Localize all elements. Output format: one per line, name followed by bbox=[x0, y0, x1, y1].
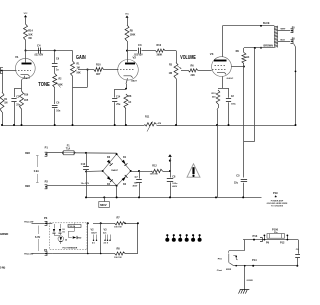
svg-text:400V: 400V bbox=[172, 185, 177, 188]
svg-text:5 M): 5 M) bbox=[0, 265, 5, 269]
svg-text:6L6: 6L6 bbox=[103, 233, 106, 235]
svg-text:BROWN: BROWN bbox=[264, 45, 274, 48]
svg-text:100K: 100K bbox=[130, 33, 136, 36]
svg-text:V1: V1 bbox=[15, 55, 19, 59]
svg-text:P1: P1 bbox=[45, 146, 49, 150]
svg-text:WHT: WHT bbox=[281, 29, 287, 31]
svg-text:12AX7: 12AX7 bbox=[91, 232, 97, 235]
svg-text:SPKR: SPKR bbox=[226, 269, 232, 271]
svg-text:0.9A: 0.9A bbox=[34, 170, 39, 173]
svg-text:1M: 1M bbox=[4, 103, 7, 105]
svg-text:C14: C14 bbox=[116, 95, 121, 98]
svg-text:22K: 22K bbox=[191, 74, 196, 77]
svg-text:TONE: TONE bbox=[38, 82, 50, 88]
svg-text:P100: P100 bbox=[272, 227, 279, 231]
svg-text:1N4007: 1N4007 bbox=[111, 169, 119, 172]
svg-text:22u: 22u bbox=[234, 183, 239, 185]
svg-text:V3: V3 bbox=[210, 52, 214, 56]
svg-text:R11: R11 bbox=[145, 116, 150, 119]
svg-text:P12: P12 bbox=[280, 242, 285, 245]
svg-text:R10: R10 bbox=[157, 44, 162, 47]
svg-text:10n: 10n bbox=[56, 111, 61, 113]
svg-text:6L6GC: 6L6GC bbox=[227, 78, 234, 80]
svg-text:R14: R14 bbox=[28, 30, 33, 33]
svg-text:P13: P13 bbox=[253, 234, 258, 238]
svg-text:1K: 1K bbox=[128, 102, 131, 104]
svg-text:100 1W: 100 1W bbox=[114, 227, 122, 229]
svg-text:P14: P14 bbox=[252, 258, 257, 262]
svg-text:C/out: C/out bbox=[217, 269, 222, 272]
svg-text:12AX7: 12AX7 bbox=[131, 80, 138, 83]
svg-text:BLK: BLK bbox=[281, 39, 286, 41]
svg-text:400V: 400V bbox=[132, 185, 137, 188]
svg-text:50K: 50K bbox=[77, 73, 82, 75]
svg-text:10K 5W: 10K 5W bbox=[150, 174, 159, 176]
svg-text:C3: C3 bbox=[138, 43, 142, 47]
svg-text:T1A: T1A bbox=[66, 147, 71, 150]
svg-text:GRND: GRND bbox=[247, 280, 254, 282]
svg-text:24: 24 bbox=[65, 239, 67, 242]
svg-text:RED: RED bbox=[25, 153, 30, 155]
svg-text:P19: P19 bbox=[273, 191, 278, 195]
svg-text:RED: RED bbox=[25, 186, 30, 188]
svg-text:TO CHASSIS: TO CHASSIS bbox=[271, 204, 284, 207]
svg-text:100 1W: 100 1W bbox=[114, 257, 122, 259]
svg-text:R12: R12 bbox=[152, 164, 157, 167]
svg-text:.022 63V: .022 63V bbox=[134, 55, 144, 57]
svg-text:.022 63V: .022 63V bbox=[34, 55, 44, 57]
svg-text:C4: C4 bbox=[37, 44, 41, 48]
svg-text:P2: P2 bbox=[45, 179, 49, 183]
svg-text:6.3V: 6.3V bbox=[35, 236, 40, 239]
svg-text:100u: 100u bbox=[172, 183, 178, 185]
svg-text:BLUE: BLUE bbox=[263, 22, 270, 25]
svg-text:F100 2A: F100 2A bbox=[69, 225, 76, 228]
svg-text:VOLUME: VOLUME bbox=[180, 55, 196, 61]
svg-text:10K: 10K bbox=[28, 33, 33, 36]
svg-text:1K5: 1K5 bbox=[24, 100, 29, 102]
svg-text:100u: 100u bbox=[231, 104, 237, 106]
svg-text:P3: P3 bbox=[44, 216, 48, 220]
svg-text:R10: R10 bbox=[96, 64, 101, 67]
svg-text:GAIN: GAIN bbox=[76, 55, 86, 61]
svg-text:PILOT BREAKER: PILOT BREAKER bbox=[63, 246, 78, 249]
svg-text:25u: 25u bbox=[116, 104, 121, 106]
svg-text:1M: 1M bbox=[169, 72, 172, 75]
svg-text:C10: C10 bbox=[81, 163, 86, 166]
svg-text:R16: R16 bbox=[24, 95, 29, 97]
svg-text:D5: D5 bbox=[63, 232, 65, 234]
svg-text:10n 1KV: 10n 1KV bbox=[81, 183, 90, 185]
svg-text:390K: 390K bbox=[157, 54, 163, 57]
svg-text:MOV: MOV bbox=[100, 203, 107, 207]
svg-text:1K: 1K bbox=[246, 56, 249, 59]
svg-text:GRND: GRND bbox=[0, 232, 8, 236]
svg-text:4K7: 4K7 bbox=[96, 73, 101, 76]
svg-text:1M: 1M bbox=[77, 67, 80, 69]
